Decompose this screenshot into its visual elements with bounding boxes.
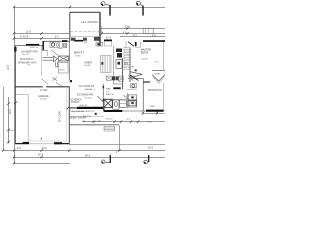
appliance blob a xyxy=(71,38,76,41)
wall bedroom west x130 xyxy=(129,48,131,83)
marker circle bottom1 xyxy=(102,160,106,164)
wall front right thin xyxy=(122,110,146,112)
appliance blob c xyxy=(94,37,100,41)
appliance stack a xyxy=(116,49,122,53)
dimension row south right xyxy=(143,113,165,115)
svg-text:12'-8: 12'-8 xyxy=(8,64,10,70)
svg-text:KIT.: KIT. xyxy=(84,42,88,44)
svg-text:14'-6: 14'-6 xyxy=(147,121,153,123)
svg-text:7'x5': 7'x5' xyxy=(27,64,32,66)
svg-text:24'-0: 24'-0 xyxy=(42,148,48,150)
wall east upper xyxy=(163,42,165,71)
kitchen counter line xyxy=(70,31,100,33)
svg-text:12'-4: 12'-4 xyxy=(106,37,112,39)
wall garage south dark left xyxy=(15,143,29,145)
svg-text:PWD: PWD xyxy=(58,48,63,50)
small diagonal door xyxy=(130,78,134,81)
appliance blob b xyxy=(83,38,87,41)
wall step x104 xyxy=(103,107,105,112)
dimension line bottom row3 xyxy=(14,163,70,165)
wall jog x43 xyxy=(42,41,44,51)
svg-text:HALL: HALL xyxy=(106,88,112,91)
wall kitchen-wing east xyxy=(99,12,101,46)
garage inner west line xyxy=(27,95,29,141)
stair side line xyxy=(123,47,125,70)
svg-text:20'x22': 20'x22' xyxy=(40,99,47,101)
wall stair west x122.5 xyxy=(122,58,124,90)
wall bath dark seg xyxy=(143,81,150,83)
vanity box 2 xyxy=(128,101,136,106)
dimension extension right top xyxy=(101,26,103,33)
bath door swing xyxy=(98,96,104,102)
bath box vanity xyxy=(120,100,127,107)
hall closet diag2 xyxy=(119,76,123,81)
wall kitchen-wing west xyxy=(69,12,71,41)
window garage door jamb1 xyxy=(23,142,29,144)
garage inner south line xyxy=(28,140,67,142)
window master north xyxy=(143,40,165,42)
window kitchen b xyxy=(74,40,83,42)
toilet bowl xyxy=(114,102,117,107)
dimension line bottom row2 xyxy=(14,157,165,159)
wc toilet box xyxy=(130,84,136,88)
dimension line bottom row0 xyxy=(69,144,165,146)
laundry door swing3 xyxy=(56,82,61,86)
bath wall y89 xyxy=(127,88,138,90)
svg-text:LIN: LIN xyxy=(131,66,135,68)
svg-text:7'6 x 6'4: 7'6 x 6'4 xyxy=(22,54,30,56)
wall closet y78.6 xyxy=(128,78,144,80)
bedroom door swing xyxy=(128,42,134,47)
hall door swing small xyxy=(124,95,128,99)
powder sink circle xyxy=(56,44,59,47)
powder second fixture xyxy=(63,43,67,48)
svg-text:GARAGE: GARAGE xyxy=(38,95,49,98)
hatch foyer wall b xyxy=(103,99,105,101)
hall closet dark b xyxy=(116,76,119,80)
wall front thick mid xyxy=(77,107,104,109)
bath wall x127.7 xyxy=(127,93,129,108)
dimension line garage vertical xyxy=(8,97,10,144)
svg-text:CL FOYER UP: CL FOYER UP xyxy=(79,86,95,88)
svg-text:2 CAR: 2 CAR xyxy=(40,89,48,92)
svg-text:DN: DN xyxy=(124,61,128,65)
bath north wall xyxy=(104,99,127,101)
svg-text:W.I.P.: W.I.P. xyxy=(60,70,66,72)
wall hall y84 xyxy=(114,83,123,85)
wall garage south dark right xyxy=(54,143,69,145)
svg-text:5'-4 6'-8: 5'-4 6'-8 xyxy=(20,37,29,39)
vanity box 1 xyxy=(128,95,136,100)
wall bath west x143.3 xyxy=(142,79,144,111)
hall closet diag1 xyxy=(106,76,111,80)
marker circle top2 xyxy=(136,1,140,5)
window seat box xyxy=(104,41,112,46)
bedroom entry wall x126 xyxy=(125,41,127,47)
svg-text:MSTR BATH: MSTR BATH xyxy=(148,89,162,92)
wall front right tail xyxy=(164,110,166,112)
tub inner xyxy=(129,101,135,106)
appliance fridge xyxy=(116,60,122,69)
wall kitchen-wing top xyxy=(70,11,100,13)
path channel xyxy=(55,62,57,67)
svg-text:22'-0 GAR: 22'-0 GAR xyxy=(59,111,62,122)
dimension row south mid xyxy=(70,116,104,118)
bath tub xyxy=(128,100,137,107)
powder room box xyxy=(50,42,59,48)
wall garage north y87 part2 xyxy=(46,86,70,88)
wall north y45 xyxy=(15,44,43,46)
tick front xyxy=(67,107,70,110)
porch floor line xyxy=(69,110,84,112)
svg-text:BRKFST: BRKFST xyxy=(74,51,84,54)
wall front lead xyxy=(69,107,77,109)
wc toilet circle xyxy=(132,84,135,87)
appliance stack b xyxy=(117,53,122,58)
bay window V1 xyxy=(152,75,165,81)
svg-text:11'-0: 11'-0 xyxy=(26,32,32,34)
big diagonal door xyxy=(130,75,138,80)
island inner lines xyxy=(101,56,103,73)
window dining xyxy=(104,40,112,42)
dimension line right row1 xyxy=(101,28,165,30)
svg-text:11'x12'6: 11'x12'6 xyxy=(84,97,93,99)
path arrowhead xyxy=(53,56,57,62)
chimney box xyxy=(143,28,153,33)
post at stair foot xyxy=(70,80,72,82)
stair treads xyxy=(124,48,130,69)
hatch foyer wall a xyxy=(103,86,105,88)
marker stem bottom1 xyxy=(109,155,111,163)
window front right xyxy=(146,110,164,112)
dimension extension bath2 xyxy=(156,111,158,115)
wall garage north y87 xyxy=(15,86,42,88)
dimension line bottom row1 xyxy=(3,150,165,152)
svg-text:58'-0: 58'-0 xyxy=(85,155,91,157)
path arrow lines xyxy=(43,57,54,59)
dimension line left vertical xyxy=(13,7,15,164)
svg-text:5'0 DINING RM: 5'0 DINING RM xyxy=(77,95,93,97)
dark blob south xyxy=(95,113,97,115)
bath box toilet xyxy=(113,100,119,109)
wall north y41 xyxy=(43,40,70,42)
svg-text:B A T H: B A T H xyxy=(106,93,114,96)
laundry door swing2 cross xyxy=(52,77,57,80)
marker circle bottom2 xyxy=(144,160,148,164)
wall east lower xyxy=(163,83,165,111)
svg-text:32'-0: 32'-0 xyxy=(148,148,154,150)
laundry door swing1 xyxy=(41,79,48,85)
hall closet box2 xyxy=(119,76,123,81)
svg-text:22'-6: 22'-6 xyxy=(125,27,131,29)
dimension line right row3 xyxy=(120,36,165,38)
window north left xyxy=(26,44,39,46)
vanity inner xyxy=(120,103,127,105)
svg-text:BDRM: BDRM xyxy=(141,51,148,54)
garage inner north step xyxy=(16,94,28,96)
closet double door triangle xyxy=(130,72,143,78)
stairs X box xyxy=(58,56,68,61)
dimension extension bath xyxy=(142,111,144,115)
wall mid x69 upper xyxy=(68,41,70,80)
marker circle top1 xyxy=(101,2,105,6)
wall front right dark1 xyxy=(104,110,122,112)
powder toilet circle xyxy=(51,43,54,46)
svg-text:PORCH: PORCH xyxy=(71,102,80,104)
svg-text:SEAT: SEAT xyxy=(155,72,161,75)
bay window V2 xyxy=(153,77,165,83)
hall closet box1 xyxy=(106,76,111,80)
stairs X diagonals xyxy=(58,56,68,61)
closet dashes xyxy=(84,88,96,90)
marker stem top2 xyxy=(142,6,144,16)
island table xyxy=(101,56,111,73)
fixture sink box xyxy=(96,43,103,46)
window kitchen a xyxy=(62,40,67,42)
wall bay y70.6 xyxy=(152,70,165,72)
bedroom entry closet lines xyxy=(135,46,141,48)
laundry door swing2 xyxy=(52,77,57,80)
dimension extension porch xyxy=(119,126,121,151)
dimension line top xyxy=(14,7,165,9)
svg-text:9'x7' OH DOOR 3'0 5'2: 9'x7' OH DOOR 3'0 5'2 xyxy=(72,111,95,113)
island chair mark xyxy=(101,62,103,65)
svg-text:3050 SL: 3050 SL xyxy=(30,47,39,49)
bath X shower xyxy=(104,99,112,107)
dimension line left row3 xyxy=(14,38,70,40)
dimension terminator garage xyxy=(8,129,15,131)
hall closet dark a xyxy=(112,76,115,80)
powder wall y50.3 xyxy=(42,49,48,51)
powder wall x47.3 xyxy=(46,50,48,56)
svg-text:W.I.C.: W.I.C. xyxy=(129,75,136,78)
svg-text:26'-0: 26'-0 xyxy=(38,154,44,156)
chimney inner lines xyxy=(145,28,147,33)
dimension line left row2 xyxy=(14,33,70,35)
svg-text:22'-0: 22'-0 xyxy=(10,108,12,114)
svg-text:14'x16': 14'x16' xyxy=(141,58,148,60)
svg-text:GREAT: GREAT xyxy=(84,61,93,64)
cased opening dark bar xyxy=(113,87,120,89)
window west door xyxy=(14,47,16,52)
tick marks xyxy=(2,6,158,165)
svg-text:6'8x10: 6'8x10 xyxy=(86,89,93,91)
front steps xyxy=(104,127,115,131)
svg-text:5050: 5050 xyxy=(150,106,156,108)
wall west x15.4 xyxy=(14,45,16,143)
svg-text:3'6 5'0: 3'6 5'0 xyxy=(106,119,113,121)
pantry box xyxy=(58,63,68,74)
bedroom door jamb xyxy=(135,42,137,46)
marker stem bottom2 xyxy=(148,155,150,162)
svg-text:9'x8'6: 9'x8'6 xyxy=(75,55,81,57)
porch edge xyxy=(69,124,119,126)
dimension line far-left vertical xyxy=(3,87,5,151)
interior light wall x41.5 xyxy=(41,46,43,77)
svg-text:5'-0 3'-4: 5'-0 3'-4 xyxy=(83,116,92,118)
dimension line right row2 xyxy=(101,33,165,35)
garage inner east line xyxy=(66,87,68,141)
window garage door jamb2 xyxy=(54,142,62,144)
wall garage east xyxy=(68,87,70,144)
wall kitchen east x113.7 xyxy=(113,46,115,84)
dimension row south long xyxy=(82,121,165,123)
wall foyer east x103 xyxy=(102,84,104,111)
powder door swing xyxy=(51,50,58,55)
svg-text:4040 SL: 4040 SL xyxy=(79,105,88,107)
svg-text:16x18: 16x18 xyxy=(84,65,91,67)
kitchen counter line2 xyxy=(70,36,100,38)
svg-text:LAU. RM 8x10: LAU. RM 8x10 xyxy=(81,20,98,24)
marker stem top1 xyxy=(109,5,111,16)
wall garage south light mid xyxy=(29,143,54,145)
